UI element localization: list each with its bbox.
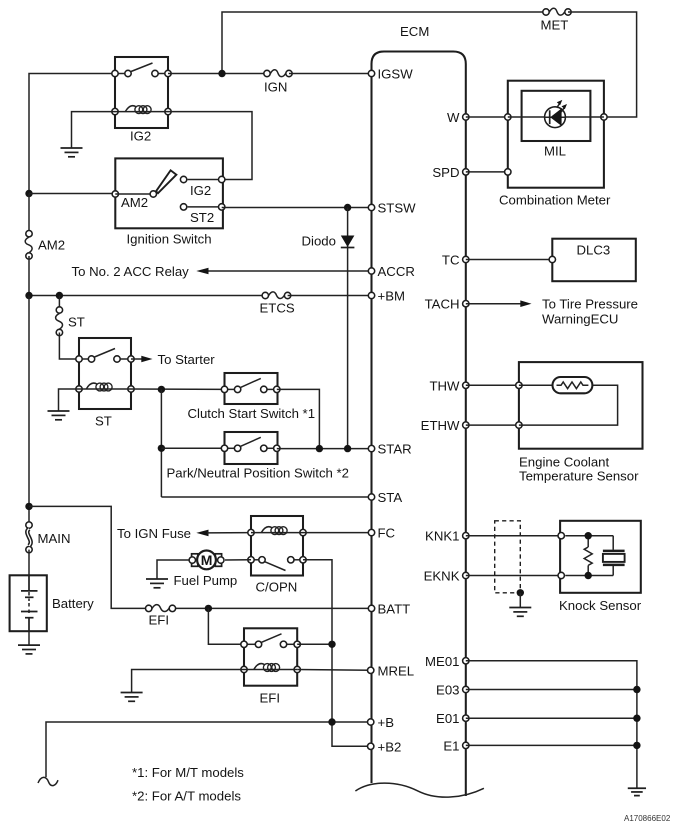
MIL inner box <box>522 91 591 141</box>
wire clutch right to STAR row <box>277 389 320 448</box>
svg-text:STSW: STSW <box>378 201 417 216</box>
svg-text:To Tire Pressure: To Tire Pressure <box>542 297 638 312</box>
resistor knock <box>584 536 592 576</box>
terminal ME01 <box>425 654 469 669</box>
svg-text:MIL: MIL <box>544 144 566 159</box>
arrow To Starter <box>131 356 153 363</box>
svg-text:MAIN: MAIN <box>38 531 71 546</box>
svg-text:ST2: ST2 <box>190 210 214 225</box>
node E01 junction <box>633 715 640 722</box>
svg-text:E1: E1 <box>443 738 459 753</box>
terminal EKNK <box>424 569 469 584</box>
ground ST coil <box>48 411 70 420</box>
wire C/OPN coil to FC <box>303 532 372 534</box>
wire MAIN to battery <box>28 550 30 576</box>
wire knock internal top <box>565 535 613 537</box>
terminal STSW <box>368 201 416 216</box>
left rail AM2 node <box>25 190 32 197</box>
node E03 junction <box>633 686 640 693</box>
ground IG2 coil <box>61 148 83 157</box>
node +B rail junction <box>328 718 335 725</box>
wire IGN fuse to IGSW <box>289 73 372 75</box>
terminal STAR <box>368 442 411 457</box>
relay C/OPN switch contacts <box>248 557 306 571</box>
wire ST coil right to clutch switch <box>131 388 225 390</box>
node diode top junction <box>344 204 351 211</box>
svg-text:FC: FC <box>378 526 396 541</box>
node park row junction <box>158 445 165 452</box>
wire park row left segment <box>161 447 224 449</box>
wire AM2 row to ignition switch <box>29 193 115 195</box>
wire ME01 row <box>466 661 637 789</box>
svg-text:+B2: +B2 <box>378 739 402 754</box>
combination meter box <box>508 81 604 188</box>
ECT sensor box <box>519 362 643 449</box>
arrow TACH row <box>466 300 532 307</box>
svg-text:Engine Coolant: Engine Coolant <box>519 455 610 470</box>
terminal +B <box>368 715 395 730</box>
thermistor element <box>553 377 593 393</box>
ECM bottom wavy break <box>355 783 484 797</box>
node clutch to STAR junction <box>316 445 323 452</box>
node shield ground junction <box>517 589 524 596</box>
svg-text:A170866E02: A170866E02 <box>624 814 671 823</box>
wire junction down to EFI relay <box>208 608 244 644</box>
knock sensor box <box>560 521 641 593</box>
ground fuel pump <box>146 579 168 588</box>
svg-text:W: W <box>447 110 460 125</box>
svg-text:Temperature Sensor: Temperature Sensor <box>519 469 639 484</box>
wire diode branch STSW to STAR <box>347 208 349 450</box>
wire thermistor loop to ETHW <box>519 385 618 425</box>
meter terminal W <box>505 114 511 120</box>
diode Diodo <box>341 236 355 248</box>
switch Park/Neutral contacts <box>221 437 280 451</box>
svg-text:ECM: ECM <box>400 24 429 39</box>
wire ACCR row with arrow to No.2 ACC relay <box>196 268 371 275</box>
terminal SPD <box>432 165 469 180</box>
wire EFI switch right to rail <box>297 643 332 645</box>
node diode bottom junction <box>344 445 351 452</box>
wire fuel pump to C/OPN switch <box>225 559 251 561</box>
fuse MAIN (fusible link) <box>26 522 32 553</box>
svg-text:ST: ST <box>95 414 112 429</box>
wire fuel pump to ground <box>157 560 189 579</box>
svg-text:E01: E01 <box>436 711 459 726</box>
ECT terminal ETHW <box>516 422 522 428</box>
terminal +BM <box>368 289 405 304</box>
svg-text:STA: STA <box>378 490 403 505</box>
svg-text:TACH: TACH <box>425 297 460 312</box>
terminal MREL <box>368 663 415 678</box>
fuse EFI <box>146 605 176 612</box>
terminal E1 <box>443 738 469 753</box>
relay EFI coil <box>241 664 301 673</box>
node ST branch junction <box>56 292 63 299</box>
svg-text:ME01: ME01 <box>425 654 459 669</box>
knock terminal KNK1 <box>558 533 564 539</box>
wire BATT row <box>172 607 371 609</box>
wire E03 row <box>466 689 637 691</box>
terminal TC <box>442 253 469 268</box>
svg-text:To Starter: To Starter <box>158 352 216 367</box>
ground shield <box>509 608 531 617</box>
meter terminal SPD <box>505 169 511 175</box>
arrow to IGN fuse <box>196 530 251 537</box>
svg-text:EFI: EFI <box>260 691 281 706</box>
node MAIN branch junction <box>25 503 32 510</box>
DLC3 terminal <box>549 256 555 262</box>
node resistor bottom <box>585 572 592 579</box>
svg-text:+B: +B <box>378 715 395 730</box>
wire ST2 to STSW <box>222 207 372 209</box>
svg-text:Clutch Start Switch *1: Clutch Start Switch *1 <box>188 406 316 421</box>
wire KNK1 row <box>466 535 561 537</box>
shield dashed box <box>495 521 521 593</box>
ground E1 rail <box>628 788 646 795</box>
relay C/OPN coil <box>248 527 306 536</box>
fuse MET <box>543 8 571 15</box>
svg-text:DLC3: DLC3 <box>577 243 611 258</box>
svg-text:WarningECU: WarningECU <box>542 312 618 327</box>
relay IG2 switch contacts <box>112 63 171 77</box>
wire IG2 coil right loop to ignition switch IG2 terminal <box>168 112 252 180</box>
svg-text:BATT: BATT <box>378 601 411 616</box>
wire battery to ground <box>28 631 30 645</box>
fuse IGN <box>264 70 292 77</box>
wire left rail to AM2 fuse <box>28 194 30 234</box>
svg-text:THW: THW <box>429 378 460 393</box>
terminal ETHW <box>421 418 469 433</box>
svg-text:ST: ST <box>68 315 85 330</box>
relay EFI box <box>244 628 297 685</box>
terminal BATT <box>368 601 410 616</box>
svg-text:EKNK: EKNK <box>424 569 460 584</box>
wire +B long row <box>46 722 371 777</box>
wire +BM row left segment <box>29 295 265 297</box>
LED MIL symbol <box>545 100 567 128</box>
svg-text:*1: For M/T models: *1: For M/T models <box>132 765 244 780</box>
terminal IGSW <box>368 67 413 82</box>
wire ST branch to ST fuse <box>58 296 60 311</box>
ECM body outline <box>372 52 466 797</box>
svg-text:Knock Sensor: Knock Sensor <box>559 598 642 613</box>
node +BM left rail junction <box>25 292 32 299</box>
svg-text:ETCS: ETCS <box>260 300 295 315</box>
node BATT row junction <box>205 605 212 612</box>
wire through MIL <box>508 116 604 118</box>
wire branch to BATT row <box>29 506 149 608</box>
wire EFI coil right to MREL <box>297 669 371 672</box>
terminal ACCR <box>368 264 415 279</box>
relay ST coil <box>76 383 134 392</box>
wire junction down to park/neutral row <box>160 389 162 497</box>
terminal E03 <box>436 683 469 698</box>
svg-text:ETHW: ETHW <box>421 418 460 433</box>
wire ETCS to +BM <box>288 295 372 297</box>
wire left rail down to MAIN branch <box>28 296 30 526</box>
svg-text:Battery: Battery <box>52 596 94 611</box>
terminal E01 <box>436 711 469 726</box>
ground EFI coil <box>121 693 143 702</box>
relay ST switch contacts <box>76 349 134 363</box>
ECT terminal THW <box>516 382 522 388</box>
svg-text:Diodo: Diodo <box>302 234 336 249</box>
relay IG2 coil <box>112 106 171 115</box>
terminal KNK1 <box>425 529 469 544</box>
wire SPD row <box>466 171 508 173</box>
terminal +B2 <box>368 739 402 754</box>
wire STA row <box>161 496 371 498</box>
svg-text:M: M <box>201 552 213 568</box>
wire shield to ground <box>519 593 521 608</box>
DLC3 box <box>552 239 636 282</box>
wire MET to right rail <box>568 12 637 117</box>
svg-text:To IGN Fuse: To IGN Fuse <box>117 526 191 541</box>
ignition switch box <box>115 158 223 228</box>
switch Clutch Start box <box>225 373 278 404</box>
node E1 junction <box>633 742 640 749</box>
wire THW row <box>466 384 519 386</box>
svg-text:E03: E03 <box>436 683 459 698</box>
wire EFI coil left to ground <box>132 670 244 693</box>
wire to thermistor <box>519 384 553 386</box>
knock terminal EKNK <box>558 572 564 578</box>
wire AM2 fuse to +BM row <box>28 256 30 296</box>
relay C/OPN box <box>251 516 303 576</box>
svg-text:EFI: EFI <box>149 613 170 628</box>
relay IG2 box <box>115 57 168 128</box>
node resistor top <box>585 532 592 539</box>
wire knock internal bottom <box>565 575 613 577</box>
ignition switch pivot and lever <box>115 170 176 197</box>
svg-text:*2: For A/T models: *2: For A/T models <box>132 789 241 804</box>
wire park right to STAR <box>277 448 372 450</box>
break symbol bottom left <box>38 777 58 785</box>
svg-text:To No. 2 ACC Relay: To No. 2 ACC Relay <box>72 264 190 279</box>
wire IG2 switch right to IGN fuse <box>168 73 267 75</box>
wire E01 row <box>466 717 637 719</box>
svg-text:SPD: SPD <box>432 165 459 180</box>
svg-text:STAR: STAR <box>378 442 412 457</box>
svg-text:AM2: AM2 <box>121 195 148 210</box>
svg-text:IG2: IG2 <box>190 183 211 198</box>
battery cell plates <box>21 575 38 631</box>
ground battery <box>18 645 40 654</box>
svg-text:Ignition Switch: Ignition Switch <box>127 232 212 247</box>
wire C/OPN switch right down to EFI row <box>303 560 371 747</box>
motor fuel pump <box>189 551 224 570</box>
svg-text:MREL: MREL <box>378 663 415 678</box>
svg-text:IGSW: IGSW <box>378 67 414 82</box>
wire IG2 coil left to ground <box>72 112 116 148</box>
wire TC row <box>466 259 553 261</box>
switch Park/Neutral box <box>225 432 278 464</box>
relay EFI switch contacts <box>241 634 301 648</box>
svg-text:Park/Neutral Position Switch *: Park/Neutral Position Switch *2 <box>167 466 350 481</box>
svg-text:IG2: IG2 <box>130 129 151 144</box>
svg-text:Fuel Pump: Fuel Pump <box>174 573 238 588</box>
terminal THW <box>429 378 469 393</box>
piezo element <box>603 536 625 576</box>
svg-text:TC: TC <box>442 253 460 268</box>
fuse ST (vertical) <box>56 307 63 336</box>
node IGN branch junction <box>218 70 225 77</box>
svg-text:+BM: +BM <box>378 289 405 304</box>
wire EKNK row <box>466 575 561 577</box>
meter terminal right <box>601 114 607 120</box>
ignition switch AM2 terminal <box>112 191 118 197</box>
wire W row <box>466 116 508 118</box>
node EFI switch rail junction <box>328 641 335 648</box>
relay ST box <box>79 338 131 409</box>
ignition switch IG2 contact <box>180 176 224 182</box>
ignition switch ST2 contact <box>180 204 224 210</box>
wire IG2 switch row left to left rail <box>29 74 115 194</box>
wire ETHW row <box>466 424 519 426</box>
svg-text:IGN: IGN <box>264 80 287 95</box>
wire ST fuse to ST relay <box>59 333 79 360</box>
terminal FC <box>368 526 395 541</box>
svg-text:MET: MET <box>541 18 569 33</box>
fuse ETCS <box>262 292 291 299</box>
svg-text:C/OPN: C/OPN <box>256 580 298 595</box>
svg-text:ACCR: ACCR <box>378 264 415 279</box>
fuse AM2 (vertical) <box>25 231 32 260</box>
terminal W <box>447 110 469 125</box>
svg-text:Combination Meter: Combination Meter <box>499 193 611 208</box>
terminal TACH <box>425 297 469 312</box>
wire E1 row <box>466 744 637 746</box>
terminal STA <box>368 490 402 505</box>
battery box <box>10 575 47 631</box>
wire ST coil left to ground <box>59 389 80 411</box>
node clutch row junction <box>158 386 165 393</box>
switch Clutch Start contacts <box>221 378 280 392</box>
wire top bus from IGN junction to MET <box>222 12 546 74</box>
svg-text:AM2: AM2 <box>38 238 65 253</box>
svg-text:KNK1: KNK1 <box>425 529 459 544</box>
